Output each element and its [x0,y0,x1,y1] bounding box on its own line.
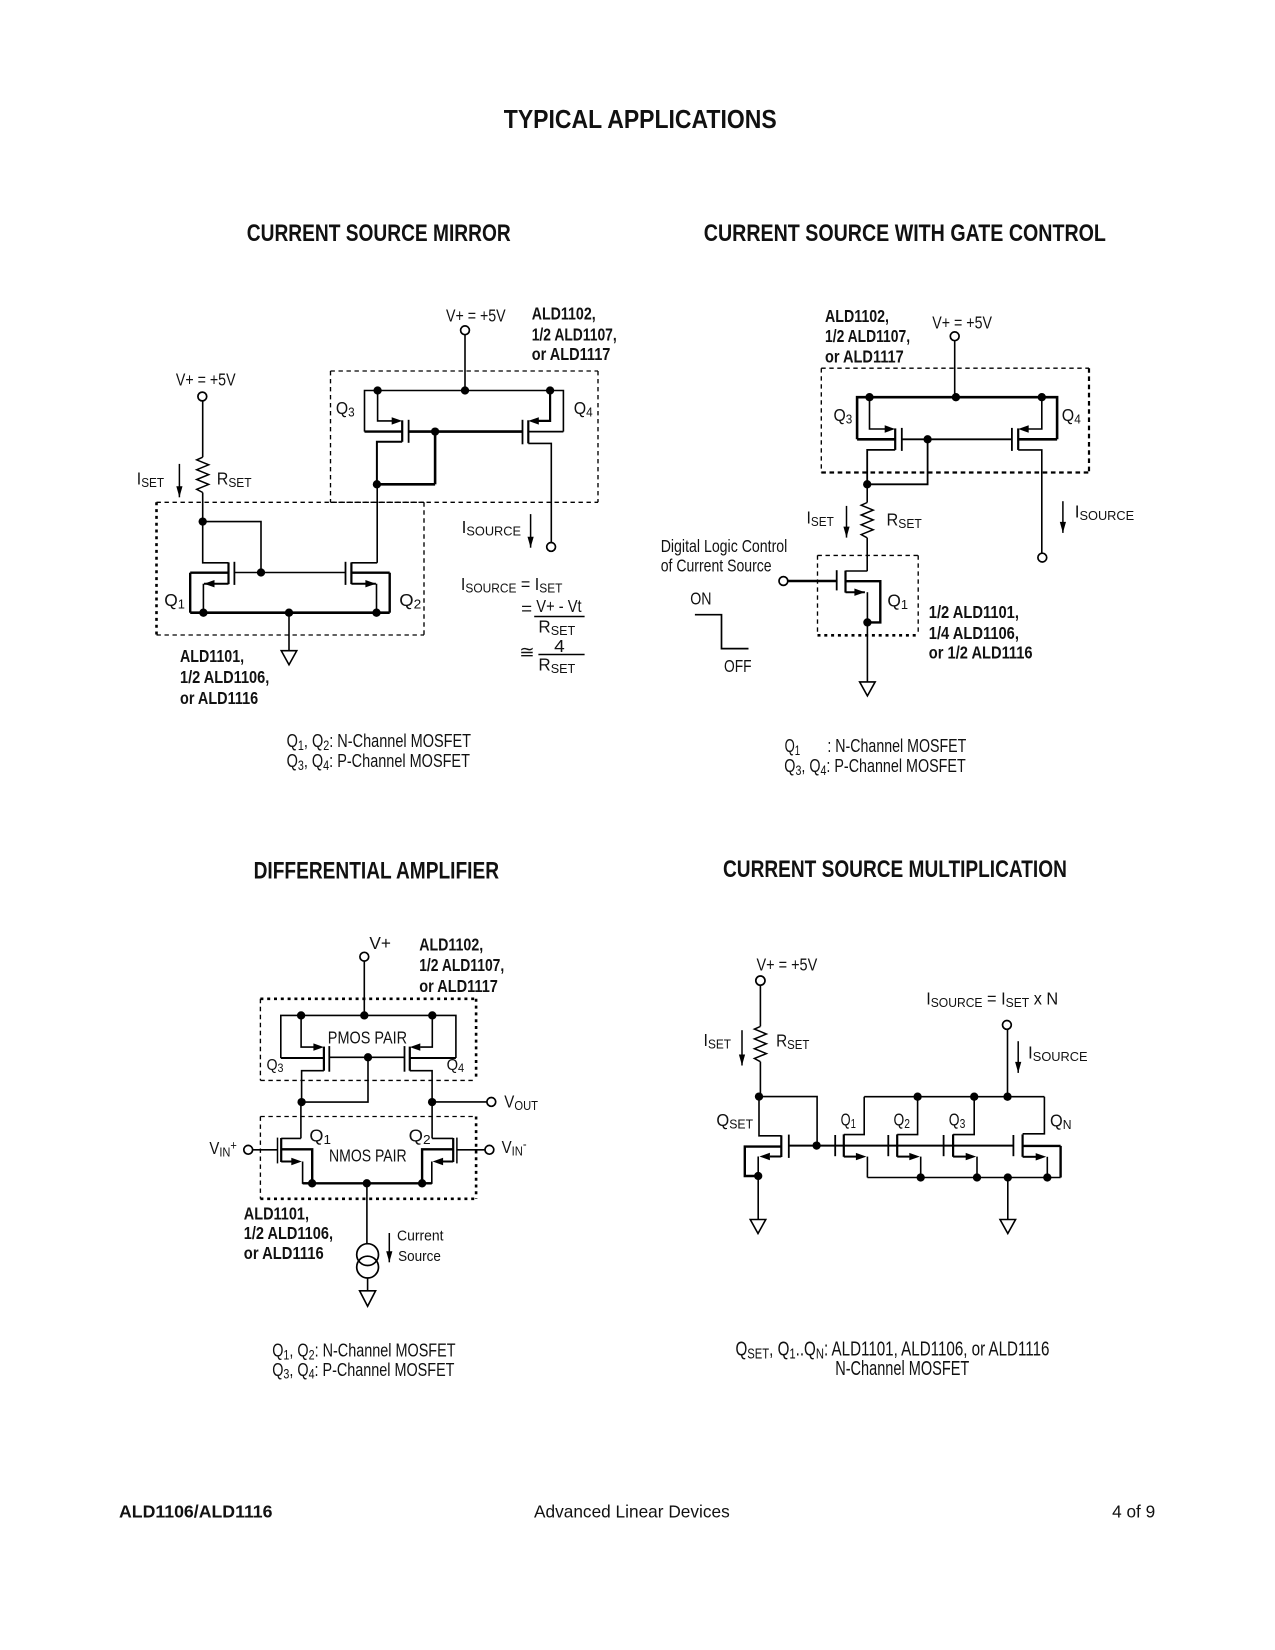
S3 label current source [397,1228,444,1265]
S1 node: Q3 source on rail [373,386,381,394]
S2 V+ terminal [950,332,959,341]
S4 node: QN source on bus [1043,1173,1051,1181]
svg-text:or ALD1117: or ALD1117 [419,977,498,997]
S3 device list ALD1102 [419,936,504,996]
svg-text:or ALD1116: or ALD1116 [180,689,258,709]
S1 node: Q2 source on bus [372,609,380,617]
svg-text:4: 4 [554,636,565,656]
S2 note MOSFET types [784,735,966,778]
footer company [534,1501,730,1521]
S1 formula approx symbol [519,642,534,661]
S1 node: gate bus junction [257,568,265,576]
S1 V+ supply label (left) [176,371,236,390]
S1 ISET current arrow [176,464,182,497]
svg-text:1/2 ALD1107,: 1/2 ALD1107, [825,328,910,347]
S2 transistor Q1 (N-channel MOSFET) [837,570,881,622]
svg-text:Q3, Q4: P-Channel MOSFET: Q3, Q4: P-Channel MOSFET [784,755,965,778]
svg-text:V+ = +5V: V+ = +5V [757,955,818,975]
S1 formula line 1 [461,574,563,595]
S3 node: gate bus junction [364,1053,372,1061]
S2 label ISET current [807,508,835,529]
S3 wire: V+ terminal to rail [363,961,365,1015]
S1 label ISET current [137,469,165,490]
S4 V+ supply label [757,955,818,975]
svg-text:or ALD1117: or ALD1117 [532,345,611,365]
S3 label VIN- [502,1137,527,1159]
S1 device list ALD1102 [532,305,617,364]
S3 V+ supply label [369,933,391,953]
S1 formula numerator V+ - Vt [536,597,582,616]
S4 node: ground junction on bus [1004,1173,1012,1181]
S1 label Q2 [399,590,421,611]
svg-text:ALD1102,: ALD1102, [419,936,483,955]
svg-text:Q3, Q4: P-Channel MOSFET: Q3, Q4: P-Channel MOSFET [272,1359,454,1382]
S4 transistor Q3 (N-channel MOSFET) [944,1097,977,1178]
svg-text:TYPICAL APPLICATIONS: TYPICAL APPLICATIONS [504,106,777,135]
S4 wire: QSET source to ground [757,1176,759,1220]
S1 V+ supply label (top) [446,307,506,326]
S4 label QN [1050,1111,1072,1132]
S1 wire: V+ terminal to rail [464,335,466,391]
S3 wire: current source to ground [367,1278,369,1291]
svg-text:ON: ON [690,590,711,609]
svg-text:PMOS PAIR: PMOS PAIR [328,1028,407,1048]
S3 wire: Q2 gate to VIN- [457,1149,485,1151]
S2 ISET current arrow [843,506,849,538]
S2 gate input terminal [779,577,788,586]
S1 wire: Q3 drain to Q2 drain [376,484,378,563]
S3 transistor Q1 (N-channel MOSFET) [278,1138,313,1184]
svg-text:CURRENT SOURCE MULTIPLICATION: CURRENT SOURCE MULTIPLICATION [723,855,1067,883]
S2 label Q1 [887,590,908,612]
S1 node: Q4 source on rail [546,386,554,394]
S1 label Q4 [574,398,593,419]
S2 logic waveform [695,615,749,649]
S4 resistor RSET [754,1026,766,1061]
svg-text:ALD1101,: ALD1101, [244,1204,309,1224]
S1 formula equals [521,599,532,618]
svg-text:V+ = +5V: V+ = +5V [932,314,992,333]
svg-text:4 of 9: 4 of 9 [1112,1501,1155,1521]
S1 wire: bus to ground [288,613,290,651]
S2 V+ rail [857,397,1057,439]
S1 ground symbol [281,651,297,665]
S1 node: gate bus junction [431,427,439,435]
S1 node: Q3 drain junction [373,480,381,488]
S2 node: gate bus junction [923,435,931,443]
S1 node A (RSET / Q1 drain / gate bus junction) [199,517,207,525]
svg-text:or ALD1117: or ALD1117 [825,347,904,367]
S4 ISET current arrow [739,1030,745,1065]
S3 IC outline ALD1102 (PMOS pair) [260,999,476,1081]
S1 node: Q1 source on bus [199,609,207,617]
S4 transistor QN (N-channel MOSFET) [1013,1097,1060,1178]
S4 node: Q2 source on bus [917,1173,925,1181]
footer page number [1112,1501,1155,1521]
svg-text:: N-Channel MOSFET: : N-Channel MOSFET [827,735,966,756]
S2 label digital logic control [661,538,788,576]
S2 label ISOURCE current [1075,501,1135,523]
S3 node: Q3 source on rail [297,1011,305,1019]
S3 wire: Q4 drain to VOUT [432,1101,487,1103]
svg-text:1/2 ALD1101,: 1/2 ALD1101, [929,603,1019,623]
S4 wire: node to gate bus [759,1097,817,1146]
S1 label Q1 [164,590,185,612]
svg-text:N-Channel MOSFET: N-Channel MOSFET [835,1357,969,1380]
S3 VIN+ input terminal [244,1145,253,1154]
S3 source bus (tail) [303,1182,432,1184]
S3 node: Q1 bulk on bus [308,1179,316,1187]
S1 wire: gate bus to drain bus [434,432,437,485]
S3 label PMOS PAIR [328,1028,407,1048]
S3 V+ rail [281,1015,456,1058]
S1 V+ terminal (top) [461,326,470,335]
svg-text:1/4 ALD1106,: 1/4 ALD1106, [929,624,1019,644]
S1 ISOURCE terminal [547,543,556,552]
S3 transistor Q4 (P-channel MOSFET) [405,1015,456,1102]
S1 transistor Q1 (N-channel MOSFET) [190,522,234,613]
S2 node: Q3 drain junction [863,480,871,488]
S1 gate bus Q3-Q4 [409,430,523,433]
S4 label ISET current [704,1031,732,1052]
S2 wire: input terminal to Q1 gate [788,580,837,582]
S3 device list ALD1101 [244,1204,333,1263]
S3 note MOSFET types [272,1340,455,1382]
S2 IC outline ALD1101 (Q1) [818,555,919,635]
S4 gate bus [789,1145,1014,1147]
S1 transistor Q3 (P-channel MOSFET) [365,391,409,485]
S2 label Q3 [834,405,853,426]
S4 node: Q2 drain on bus [913,1093,921,1101]
S4 node: RSET / QSET drain junction [755,1092,763,1100]
svg-text:ALD1102,: ALD1102, [825,308,889,327]
S3 node: Q4 drain junction (VOUT) [428,1098,436,1106]
S2 transistor Q3 (P-channel MOSFET) [857,397,902,484]
S2 ISOURCE terminal [1038,553,1047,562]
svg-text:of Current Source: of Current Source [661,557,772,576]
svg-text:ALD1106/ALD1116: ALD1106/ALD1116 [119,1501,273,1521]
S4 wire: V+ terminal to RSET [759,985,761,1026]
svg-text:1/2 ALD1106,: 1/2 ALD1106, [244,1224,333,1244]
svg-text:ALD1102,: ALD1102, [532,305,596,324]
S3 VOUT terminal [487,1098,496,1107]
S4 label ISOURCE current [1028,1042,1088,1064]
S4 wire: bus to ground [1007,1178,1009,1220]
S3 node: Q2 bulk on bus [418,1179,426,1187]
S2 device list ALD1101 [929,603,1033,663]
S4 source bus [867,1177,1060,1179]
S4 label RSET [776,1032,810,1053]
S4 ISOURCE terminal [1003,1021,1012,1030]
svg-text:OFF: OFF [724,657,752,676]
svg-text:V+: V+ [369,933,391,953]
section header: CURRENT SOURCE MULTIPLICATION [723,855,1067,883]
S1 V+ rail [365,391,564,432]
S3 label VIN+ [209,1138,236,1160]
S1 formula fraction bar 2 [538,654,584,656]
S2 transistor Q4 (P-channel MOSFET) [1012,397,1057,553]
footer part numbers [119,1501,273,1521]
S4 label Q1 [841,1111,856,1132]
S4 drain bus (ISOURCE) [864,1096,1044,1098]
S1 ISOURCE current arrow [528,514,534,548]
S3 V+ terminal [360,952,369,961]
svg-text:Current: Current [397,1228,444,1245]
S3 node: V+ entry on rail [360,1011,368,1019]
S2 node: V+ entry on rail [952,393,960,401]
S1 label ISOURCE current [462,517,522,539]
svg-text:1/2 ALD1107,: 1/2 ALD1107, [532,326,617,345]
S1 label RSET [217,469,252,490]
S3 transistor Q2 (N-channel MOSFET) [422,1138,457,1184]
section header: DIFFERENTIAL AMPLIFIER [254,856,500,884]
S1 IC outline ALD1101 (Q1/Q2) [157,502,425,635]
S3 wire: gate bus to Q3 drain [302,1057,368,1102]
S3 wire: VIN+ to Q1 gate [253,1149,278,1151]
S2 label OFF [724,657,752,676]
S1 node: V+ entry on rail [461,386,469,394]
S1 formula denominator RSET [538,616,575,638]
svg-text:CURRENT SOURCE WITH GATE CONTR: CURRENT SOURCE WITH GATE CONTROL [704,219,1106,247]
S2 node: Q3 source on rail [865,393,873,401]
S1 V+ terminal (left) [198,392,207,401]
S2 wire: RSET to Q1 drain [866,538,868,571]
S4 V+ terminal [756,976,765,985]
S4 ISOURCE current arrow [1015,1041,1021,1073]
S3 label Q1 [309,1126,331,1147]
page title [504,106,777,135]
S2 label Q4 [1062,405,1081,426]
S1 source bus (Q1/Q2 sources and bulks) [190,611,390,614]
S2 wire: drain node to RSET [866,484,868,502]
S2 ground symbol [860,682,876,696]
S4 label Q2 [894,1111,911,1131]
S4 node: ISOURCE entry on bus [1003,1093,1011,1101]
svg-text:V+ - Vt: V+ - Vt [536,597,582,616]
svg-text:or ALD1116: or ALD1116 [244,1243,324,1263]
svg-text:Digital Logic Control: Digital Logic Control [661,538,788,557]
S4 ground symbol (sources) [1000,1220,1016,1234]
S4 label QSET [716,1111,753,1132]
S3 label Q3 [267,1056,284,1075]
S4 node: Q3 source on bus [973,1173,981,1181]
S3 ground symbol [360,1291,376,1307]
S2 wire: gate bus to drain node [867,439,927,484]
S1 wire: RSET to node A [202,493,204,522]
S3 node: tail junction [363,1179,371,1187]
S2 label RSET [887,510,923,531]
section header: CURRENT SOURCE MIRROR [247,219,511,247]
S4 wire: RSET to node [759,1062,761,1097]
svg-text:≅: ≅ [519,642,534,661]
S1 transistor Q2 (N-channel MOSFET) [346,562,390,613]
S2 wire: Q1 source to ground [866,622,868,682]
S4 node: QSET source junction [754,1172,762,1180]
S2 device list ALD1102 [825,308,910,367]
S1 label Q3 [336,398,355,419]
S1 resistor RSET [197,457,209,492]
S4 ground symbol (QSET) [750,1220,766,1234]
S2 V+ supply label [932,314,992,333]
S3 wire: Q3 drain to Q1 drain [300,1102,302,1138]
S2 label ON [690,590,711,609]
S4 transistor Q1 (N-channel MOSFET) [835,1097,867,1178]
S1 formula fraction bar [534,616,584,618]
section header: CURRENT SOURCE WITH GATE CONTROL [704,219,1106,247]
S3 node: Q4 source on rail [428,1011,436,1019]
S2 gate bus Q3-Q4 [902,438,1012,440]
S1 wire: V+ terminal to RSET [202,401,204,457]
S2 ISOURCE current arrow [1060,501,1066,533]
svg-text:ALD1101,: ALD1101, [180,646,244,666]
S3 node: Q3 drain junction [297,1098,305,1106]
S1 note MOSFET types [287,730,471,773]
S1 node: ground junction on bus [285,609,293,617]
S3 label VOUT [504,1092,538,1113]
S2 node: Q1 source junction [863,618,871,626]
svg-text:1/2 ALD1107,: 1/2 ALD1107, [419,957,504,976]
S2 resistor RSET [861,503,873,538]
S4 label ISOURCE = ISET x N [926,989,1058,1010]
svg-text:1/2 ALD1106,: 1/2 ALD1106, [180,668,269,688]
S4 node: gate bus junction [812,1141,820,1149]
S1 device list ALD1101 [180,646,269,708]
S1 formula numerator 4 [554,636,565,656]
S3 IC outline ALD1101 (NMOS pair) [260,1117,476,1199]
svg-text:V+ = +5V: V+ = +5V [446,307,506,326]
S4 node: Q3 drain on bus [970,1093,978,1101]
S3 wire: Q4 drain to Q2 drain [431,1102,433,1138]
svg-text:DIFFERENTIAL AMPLIFIER: DIFFERENTIAL AMPLIFIER [254,856,500,884]
svg-text:CURRENT SOURCE MIRROR: CURRENT SOURCE MIRROR [247,219,511,247]
S3 label Q4 [447,1056,465,1075]
svg-text:Source: Source [398,1248,441,1265]
S3 transistor Q3 (P-channel MOSFET) [281,1015,330,1102]
S1 wire: node A to gate bus [203,522,261,573]
svg-text:V+ = +5V: V+ = +5V [176,371,236,390]
S2 node: Q4 source on rail [1038,393,1046,401]
svg-text:or 1/2 ALD1116: or 1/2 ALD1116 [929,643,1033,663]
S4 transistor Q2 (N-channel MOSFET) [888,1097,920,1178]
S4 transistor QSET (N-channel MOSFET) [745,1097,789,1176]
S3 VIN- input terminal [485,1145,494,1154]
S3 gate bus Q3-Q4 [329,1056,404,1058]
svg-text:=: = [521,599,532,618]
svg-text:NMOS PAIR: NMOS PAIR [329,1147,407,1166]
S1 transistor Q4 (P-channel MOSFET) [523,391,564,543]
S4 wire: ISOURCE terminal to bus [1007,1029,1009,1097]
S1 drain bus (Q3 drain tie) [377,483,435,486]
S3 label NMOS PAIR [329,1147,407,1166]
S4 note device types [736,1337,1050,1380]
svg-text:Q3, Q4: P-Channel MOSFET: Q3, Q4: P-Channel MOSFET [287,750,470,773]
S2 IC outline ALD1102 (Q3/Q4) [821,368,1089,472]
S1 IC outline ALD1102 (Q3/Q4) [331,371,599,502]
S3 wire: tail to current source [366,1183,368,1244]
S3 current source symbol [357,1244,379,1278]
S2 wire: V+ terminal to rail [954,341,956,398]
S1 gate bus Q1-Q2 [234,572,345,574]
S4 label Q3 [949,1111,966,1131]
S1 formula denominator RSET 2 [538,654,575,676]
S3 current source arrow [386,1233,392,1262]
svg-text:Advanced Linear Devices: Advanced Linear Devices [534,1501,730,1521]
S3 label Q2 [409,1126,431,1147]
